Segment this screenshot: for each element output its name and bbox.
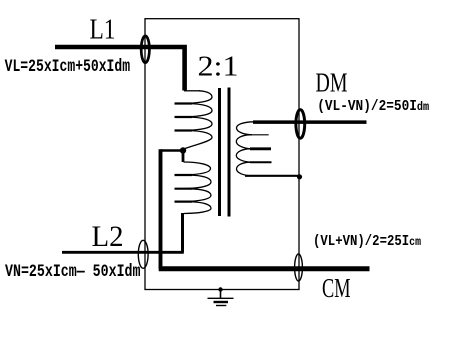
svg-text:VL=25xIcm+50xIdm: VL=25xIcm+50xIdm [5,56,131,76]
svg-text:L1: L1 [90,15,116,46]
svg-text:(VL+VN)/2=25Icm: (VL+VN)/2=25Icm [313,234,421,250]
svg-text:(VL-VN)/2=50Idm: (VL-VN)/2=50Idm [317,99,430,115]
svg-text:L2: L2 [92,220,124,253]
svg-text:2:1: 2:1 [198,52,239,83]
svg-text:DM: DM [316,68,348,98]
svg-text:CM: CM [322,273,351,303]
svg-text:VN=25xIcm— 50xIdm: VN=25xIcm— 50xIdm [5,261,140,281]
